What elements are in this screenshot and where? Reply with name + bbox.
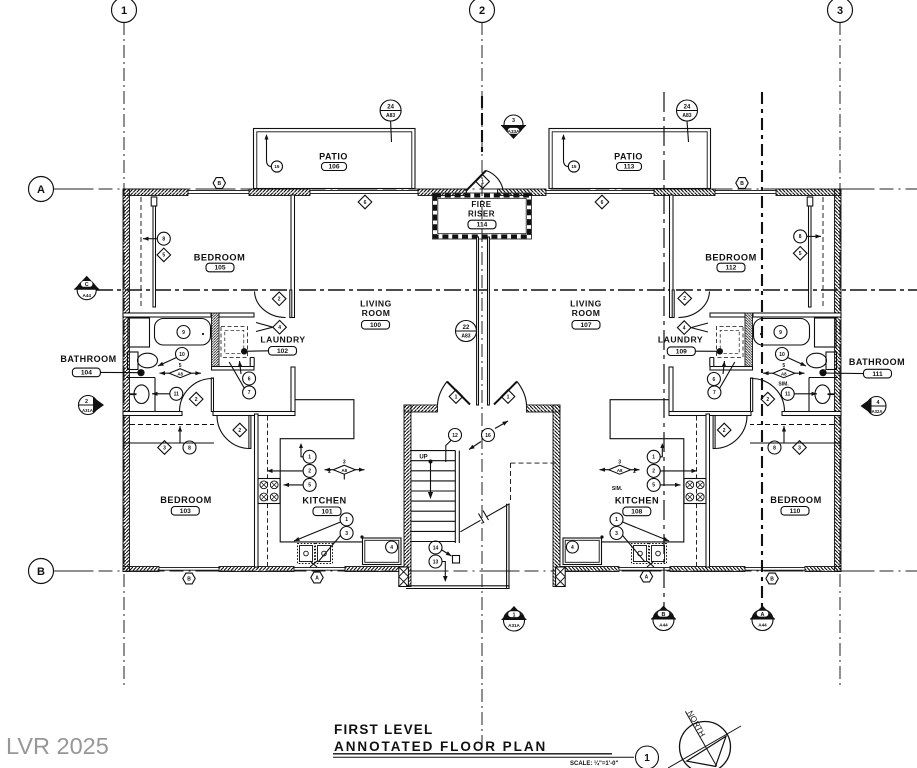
diamond 4 laundry109	[677, 321, 691, 335]
section marker 1/A31A	[504, 610, 525, 631]
fire riser door diamond	[476, 175, 490, 189]
svg-text:13: 13	[433, 559, 439, 565]
svg-text:1: 1	[481, 179, 484, 185]
laundry109 junction dot	[717, 348, 723, 354]
svg-text:A: A	[315, 575, 319, 581]
closet dashed line	[140, 197, 142, 307]
diamond 5 bedroom112	[793, 247, 807, 261]
grid bubble B	[29, 559, 54, 584]
fire riser door	[466, 171, 486, 192]
svg-text:2: 2	[308, 469, 311, 475]
svg-text:5: 5	[799, 251, 802, 257]
bathroom south wall	[123, 412, 182, 416]
svg-text:7: 7	[248, 390, 251, 396]
section marker 4/A32A	[867, 397, 886, 416]
callout 24/A83 patio113	[677, 100, 698, 121]
kitchen counter	[280, 400, 362, 542]
svg-text:A8: A8	[781, 371, 787, 376]
svg-text:A44: A44	[82, 293, 91, 298]
chase wall east	[488, 237, 490, 405]
svg-text:6: 6	[601, 200, 604, 206]
exterior wall left (hatched)	[123, 189, 130, 572]
diamond 2 bed110 door	[717, 423, 731, 437]
svg-text:A83: A83	[461, 334, 470, 340]
svg-text:3: 3	[163, 445, 166, 451]
circle 14	[429, 541, 442, 554]
section marker C/A44	[77, 281, 96, 300]
exterior wall top segment 1	[123, 189, 188, 196]
section marker A/A44	[752, 610, 773, 631]
svg-text:8: 8	[188, 445, 191, 451]
svg-text:6: 6	[713, 377, 716, 383]
bath vanity	[126, 378, 155, 412]
door bedroom105	[290, 290, 292, 318]
svg-text:BEDROOM: BEDROOM	[160, 495, 211, 505]
svg-text:1: 1	[507, 394, 510, 400]
circle 8 bedroom112	[794, 230, 807, 243]
diamond 2 bed103 door	[233, 423, 247, 437]
svg-text:106: 106	[328, 164, 339, 171]
bedroom closet wall	[153, 197, 156, 307]
bedroom103/kitchen wall	[255, 414, 259, 567]
hex B top right	[736, 178, 748, 189]
svg-text:15: 15	[274, 164, 280, 169]
grid bubble 2	[470, 0, 495, 23]
svg-text:8: 8	[799, 234, 802, 240]
window kitchen bottom	[294, 567, 345, 569]
patio106 arrow and circle 15	[267, 136, 272, 167]
svg-text:14: 14	[433, 545, 439, 551]
svg-text:108: 108	[631, 509, 642, 516]
circle 8 bedroom105	[157, 232, 170, 245]
grid bubble A	[29, 177, 54, 202]
callout 22/A83	[456, 321, 477, 342]
window patio door top	[310, 190, 418, 192]
laundry south wall	[212, 367, 255, 371]
svg-text:B: B	[217, 181, 221, 187]
svg-text:22: 22	[463, 325, 470, 331]
svg-text:24: 24	[387, 105, 394, 111]
svg-text:PATIO: PATIO	[319, 152, 348, 162]
hex A bottom left	[311, 572, 323, 583]
svg-text:109: 109	[676, 348, 687, 355]
svg-text:BATHROOM: BATHROOM	[60, 354, 116, 364]
door bedroom103	[249, 416, 251, 449]
svg-text:BEDROOM: BEDROOM	[194, 253, 245, 263]
exterior wall top segment 3	[418, 189, 467, 196]
svg-text:5: 5	[179, 363, 182, 369]
svg-text:101: 101	[321, 509, 332, 516]
svg-text:5: 5	[308, 483, 311, 489]
svg-text:A: A	[37, 184, 45, 196]
plumbing wall (hatched)	[212, 313, 220, 370]
svg-text:3: 3	[345, 531, 348, 537]
svg-text:A: A	[645, 574, 649, 580]
window bedroom bottom	[159, 567, 219, 569]
unit entry door	[447, 382, 470, 405]
svg-text:A44: A44	[659, 623, 668, 628]
circles 1 2 5 kitchen108	[647, 450, 660, 463]
svg-text:1: 1	[455, 394, 458, 400]
svg-text:ROOM: ROOM	[572, 308, 601, 318]
svg-text:BEDROOM: BEDROOM	[705, 253, 756, 263]
svg-text:A8: A8	[177, 371, 183, 376]
circle 9 tub112	[774, 326, 787, 339]
svg-text:A31A: A31A	[508, 623, 520, 628]
patio113 arrow and circle 15	[564, 136, 569, 167]
svg-text:A44: A44	[758, 623, 767, 628]
svg-text:1: 1	[121, 5, 127, 17]
svg-text:1: 1	[308, 455, 311, 461]
hex B bottom left	[183, 573, 195, 584]
svg-text:1: 1	[615, 517, 618, 523]
svg-text:1: 1	[652, 455, 655, 461]
closet arrows bed110	[783, 426, 785, 443]
bedroom103 closet shelf	[130, 424, 214, 426]
svg-text:2: 2	[195, 397, 198, 403]
svg-text:2: 2	[652, 469, 655, 475]
circle 10 toilet111	[776, 348, 789, 361]
stair treads	[411, 450, 456, 452]
svg-text:4: 4	[683, 325, 686, 331]
svg-text:ANNOTATED FLOOR PLAN: ANNOTATED FLOOR PLAN	[334, 739, 547, 754]
hex B top left	[213, 178, 225, 189]
circle 7 laundry109	[708, 386, 721, 399]
svg-text:LAUNDRY: LAUNDRY	[260, 335, 305, 345]
svg-text:LIVING: LIVING	[570, 299, 602, 309]
svg-text:2: 2	[238, 428, 241, 434]
grid line B	[54, 570, 917, 572]
svg-text:11: 11	[174, 392, 180, 398]
elevation marker 3/A8 kitchen	[333, 465, 355, 474]
svg-text:LIVING: LIVING	[360, 299, 392, 309]
svg-text:LAUNDRY: LAUNDRY	[658, 335, 703, 345]
kitchen side counter	[363, 538, 402, 565]
svg-text:2: 2	[278, 297, 281, 303]
svg-text:8: 8	[773, 445, 776, 451]
exterior wall top segment 2	[249, 189, 310, 196]
svg-text:7: 7	[713, 390, 716, 396]
grid bubble 3	[828, 0, 853, 23]
circles 1 3 sink leader	[340, 513, 353, 526]
svg-text:16: 16	[485, 433, 491, 439]
svg-text:104: 104	[81, 370, 92, 377]
svg-text:KITCHEN: KITCHEN	[615, 496, 659, 506]
svg-text:113: 113	[624, 164, 635, 171]
svg-text:4: 4	[877, 400, 880, 406]
circle 13	[429, 555, 442, 568]
svg-text:B: B	[37, 566, 45, 578]
svg-text:4: 4	[390, 545, 393, 551]
circle 16	[482, 429, 495, 442]
circle 4 counter	[386, 541, 398, 553]
svg-text:111: 111	[872, 371, 883, 378]
stair landing break	[460, 520, 480, 532]
dashed overhead outline	[510, 463, 512, 503]
bedroom/bath wall	[123, 313, 211, 317]
svg-text:9: 9	[779, 330, 782, 336]
svg-text:100: 100	[370, 322, 381, 329]
circle 11 sink111	[781, 387, 794, 400]
stair top wall segment	[404, 405, 438, 412]
svg-text:B: B	[770, 576, 774, 582]
svg-text:ROOM: ROOM	[362, 308, 391, 318]
svg-text:110: 110	[790, 508, 801, 515]
stair stringer	[454, 451, 456, 543]
svg-text:FIRE: FIRE	[471, 200, 491, 209]
circle 12	[449, 429, 462, 442]
svg-text:5: 5	[782, 363, 785, 369]
stair bay south wall	[406, 585, 510, 587]
svg-text:A: A	[761, 612, 765, 618]
circles 1 2 5 kitchen	[303, 450, 316, 463]
svg-text:5: 5	[162, 253, 165, 259]
svg-text:3: 3	[343, 459, 346, 465]
section cut line A-A44 vertical	[761, 92, 763, 610]
svg-text:LVR 2025: LVR 2025	[6, 733, 109, 759]
entry door diamond unit2	[501, 390, 515, 404]
svg-text:UP: UP	[419, 455, 427, 461]
svg-text:B: B	[740, 181, 744, 187]
circle 11 sink	[170, 387, 183, 400]
svg-text:3: 3	[798, 445, 801, 451]
circle 9 tub	[177, 326, 190, 339]
closet arrows bed103	[179, 426, 181, 443]
svg-text:BEDROOM: BEDROOM	[770, 495, 821, 505]
up dot and down arrow	[429, 460, 433, 464]
circle 4 counter108	[566, 541, 578, 553]
svg-text:1: 1	[345, 517, 348, 523]
svg-text:1: 1	[513, 612, 516, 618]
svg-text:A31A: A31A	[82, 408, 93, 413]
hex B bottom right	[766, 573, 778, 584]
svg-text:10: 10	[779, 352, 785, 358]
bedroom/living wall	[291, 195, 295, 318]
svg-text:3: 3	[615, 531, 618, 537]
kitchen cabinet dashed	[267, 416, 269, 566]
diamond 2 bath111 door	[761, 392, 775, 406]
circle 7 laundry	[243, 386, 256, 399]
stair east wall	[506, 504, 508, 589]
grid bubble 1	[112, 0, 137, 23]
bath cabinet	[128, 318, 150, 347]
elevation marker 5/A8 bath	[169, 369, 191, 378]
svg-text:2: 2	[723, 428, 726, 434]
x-brace wall block	[399, 567, 409, 587]
svg-text:RISER: RISER	[468, 210, 495, 219]
door bathroom104	[211, 378, 213, 412]
bathtub	[155, 319, 211, 346]
toilet	[128, 352, 139, 370]
stove	[258, 479, 280, 504]
diamond 2 bath door	[189, 392, 203, 406]
svg-text:112: 112	[726, 265, 737, 272]
circle 6 laundry109	[707, 373, 720, 386]
svg-text:11: 11	[785, 392, 791, 398]
laundry east wall	[291, 367, 295, 413]
svg-text:102: 102	[277, 348, 288, 355]
exterior wall bottom segment 1	[123, 567, 159, 572]
patio walls	[254, 129, 416, 189]
diamond 6 top right	[595, 195, 609, 209]
svg-text:B: B	[187, 576, 191, 582]
svg-text:KITCHEN: KITCHEN	[302, 496, 346, 506]
callout 24/A83 patio106	[380, 100, 401, 121]
svg-text:SCALE: ¼"=1'-0": SCALE: ¼"=1'-0"	[570, 760, 618, 767]
exterior wall bottom segment 3	[345, 567, 404, 572]
svg-text:SIM.: SIM.	[778, 382, 789, 388]
north arrow	[680, 722, 731, 768]
section cut line 3-A33A vertical segment	[481, 96, 483, 152]
svg-text:2: 2	[766, 397, 769, 403]
svg-text:4: 4	[278, 325, 281, 331]
bath sink	[134, 385, 149, 404]
diamond 2 door bed112	[678, 292, 692, 306]
svg-text:3: 3	[618, 459, 621, 465]
grid line 1	[123, 22, 125, 688]
circle 10 toilet	[176, 348, 189, 361]
svg-text:A83: A83	[682, 113, 691, 119]
section cut line B-A44 vertical	[663, 92, 665, 610]
section marker B/A44	[653, 610, 674, 631]
diamond 4 laundry	[273, 320, 287, 334]
svg-text:3: 3	[512, 118, 515, 124]
svg-text:103: 103	[180, 508, 191, 515]
grid line 3	[839, 22, 841, 688]
washer/dryer dashed	[221, 327, 248, 358]
grid line A	[54, 188, 917, 190]
svg-text:SIM.: SIM.	[612, 486, 623, 492]
detail circle 1	[636, 746, 659, 768]
svg-text:114: 114	[477, 222, 488, 229]
elevation marker 3/A8 kitchen108	[609, 465, 631, 474]
svg-text:3: 3	[837, 5, 843, 17]
circles 1 3 sink108 leader	[610, 513, 623, 526]
svg-text:C: C	[85, 282, 89, 288]
circle 6 laundry	[243, 372, 256, 385]
laundry junction dot	[241, 348, 247, 354]
section marker 3/A33A	[504, 115, 523, 134]
svg-text:12: 12	[452, 433, 458, 439]
grid line 2	[481, 22, 483, 752]
exterior wall bottom segment 2	[219, 567, 294, 572]
svg-text:A32A: A32A	[872, 409, 883, 414]
diamond 5 bedroom105	[157, 248, 171, 262]
svg-text:105: 105	[214, 265, 225, 272]
svg-text:5: 5	[652, 483, 655, 489]
svg-text:6: 6	[364, 200, 367, 206]
diamond 2 door bed105	[272, 292, 286, 306]
svg-text:2: 2	[479, 5, 485, 17]
svg-text:6: 6	[248, 376, 251, 382]
svg-text:4: 4	[571, 545, 574, 551]
section cut line C-A44 horizontal	[96, 289, 917, 291]
hex A bottom right	[640, 571, 652, 582]
chase wall west	[477, 237, 479, 405]
svg-text:B: B	[662, 612, 666, 618]
svg-text:2: 2	[85, 399, 88, 405]
stair west wall (hatched)	[404, 405, 411, 587]
svg-text:8: 8	[162, 237, 165, 243]
elevation marker 5/A8 bath111	[773, 369, 795, 378]
section marker 2/A31A	[79, 396, 98, 415]
kitchen sink	[298, 544, 315, 564]
svg-text:2: 2	[683, 296, 686, 302]
svg-text:A8: A8	[617, 468, 623, 473]
svg-text:107: 107	[580, 322, 591, 329]
svg-text:A33A: A33A	[508, 129, 520, 134]
svg-text:BATHROOM: BATHROOM	[849, 357, 905, 367]
svg-text:A83: A83	[386, 113, 395, 119]
svg-text:FIRST LEVEL: FIRST LEVEL	[334, 722, 433, 737]
svg-text:9: 9	[182, 330, 185, 336]
svg-text:15: 15	[571, 164, 577, 169]
diamond 6 top left	[358, 195, 372, 209]
svg-text:PATIO: PATIO	[614, 152, 643, 162]
svg-text:10: 10	[179, 352, 185, 358]
svg-text:1: 1	[644, 753, 650, 764]
fire riser room walls	[433, 193, 532, 239]
window bedroom top	[188, 190, 249, 192]
entry door diamond unit1	[449, 390, 463, 404]
svg-text:24: 24	[684, 105, 691, 111]
svg-text:A8: A8	[341, 468, 347, 473]
